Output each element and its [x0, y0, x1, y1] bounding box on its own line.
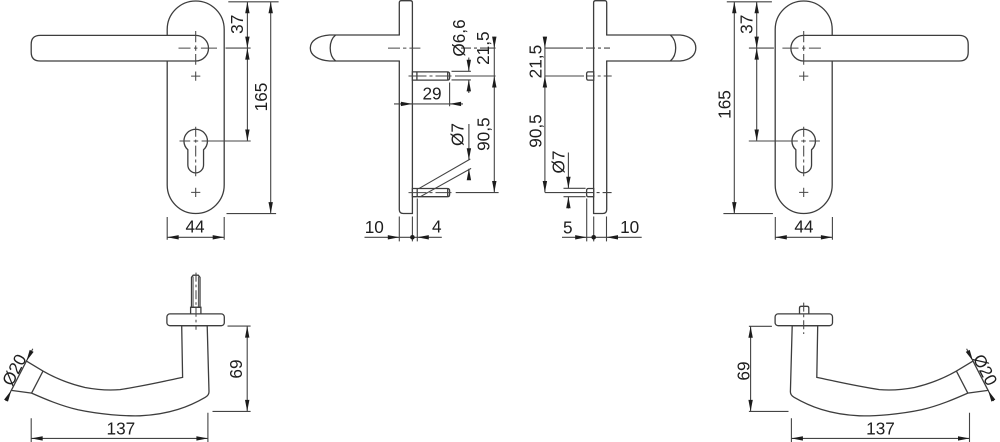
svg-text:69: 69 [226, 359, 246, 378]
upper screw centerline [409, 75, 452, 77]
svg-text:29: 29 [422, 84, 441, 104]
plate side profile (right view) [594, 1, 607, 214]
handle bar outline stroke (right view) [606, 35, 696, 61]
lever handle bar with end caps [31, 35, 208, 61]
svg-text:21,5: 21,5 [473, 31, 493, 64]
label 37 [227, 15, 247, 34]
grub screw centerline [803, 303, 805, 334]
PZ keyhole [184, 129, 208, 173]
grip end inner arc (right view) [670, 35, 675, 61]
bottom 10 / 4 [365, 199, 442, 242]
dim line 165 [270, 2, 272, 214]
neck and grip [11, 326, 209, 416]
svg-text:137: 137 [866, 419, 895, 439]
69 [213, 326, 251, 411]
rose / plate top view [167, 314, 224, 326]
spindle centerline [195, 273, 197, 330]
label 165 [251, 83, 271, 112]
centerline extensions to the left [545, 48, 612, 193]
svg-text:69: 69 [734, 361, 754, 380]
hub centerlines [179, 47, 218, 49]
dim 44 [167, 217, 224, 240]
upper fixing screw M6 [412, 72, 449, 80]
dia 7 diagonal [419, 124, 471, 197]
svg-text:37: 37 [227, 15, 247, 34]
centerline extensions to the right [388, 47, 420, 49]
29 [394, 83, 463, 107]
dia 7 vertical [564, 153, 586, 209]
svg-text:21,5: 21,5 [525, 45, 545, 78]
view 3: side view right, plate + bar [594, 1, 696, 214]
lower screw collar and tip lines [417, 189, 448, 197]
svg-text:4: 4 [432, 217, 442, 237]
screw cross upper [191, 72, 200, 81]
spindle bush [191, 307, 201, 314]
grip end inner arc [330, 35, 335, 61]
extension lines [202, 2, 279, 214]
69 [749, 326, 789, 411]
handle bar side [310, 35, 400, 61]
grub screw body [800, 306, 809, 314]
svg-text:10: 10 [620, 217, 639, 237]
view 4: mirrored front view right [775, 1, 968, 214]
svg-text:Ø6,6: Ø6,6 [449, 19, 469, 56]
dia 20 [6, 349, 33, 401]
svg-text:5: 5 [563, 217, 573, 237]
svg-text:165: 165 [715, 90, 735, 119]
bottom 5 / 10 [562, 199, 642, 242]
square spindle shaft [192, 275, 201, 307]
svg-text:Ø7: Ø7 [549, 151, 569, 174]
svg-text:44: 44 [185, 217, 205, 237]
upper screw stub (right side view) [587, 72, 594, 80]
handle bar outline (left side view) [310, 35, 400, 61]
plate side profile [399, 1, 412, 214]
upper screw collar and tip lines [417, 72, 448, 80]
handle bar side (right view) [606, 35, 696, 61]
lower screw stub (right side view) [587, 189, 594, 197]
svg-text:37: 37 [737, 15, 757, 34]
21,5 / 90,5 line [493, 37, 495, 193]
spindle inner edges [193, 277, 198, 308]
svg-text:10: 10 [365, 217, 384, 237]
PZ centerlines [180, 140, 199, 142]
svg-text:90,5: 90,5 [525, 114, 545, 147]
137 [791, 413, 969, 442]
svg-text:165: 165 [251, 83, 271, 112]
lower screw centerline [409, 192, 452, 194]
svg-text:44: 44 [794, 217, 814, 237]
137 [31, 413, 208, 442]
dim line 37 + 72 chain [246, 2, 248, 141]
lower fixing screw M6 [412, 189, 449, 197]
view 6 grub screw stub [800, 303, 809, 334]
dia 6,6 [452, 58, 471, 94]
dia 20 [967, 349, 994, 401]
21,5 / 90,5 line [544, 37, 546, 193]
svg-text:137: 137 [107, 419, 136, 439]
grip cap inner line [32, 371, 43, 393]
view 5 spindle [191, 273, 201, 330]
screw cross lower [191, 188, 200, 197]
svg-text:Ø7: Ø7 [447, 123, 467, 146]
backplate outline [167, 1, 224, 214]
svg-text:90,5: 90,5 [473, 117, 493, 150]
